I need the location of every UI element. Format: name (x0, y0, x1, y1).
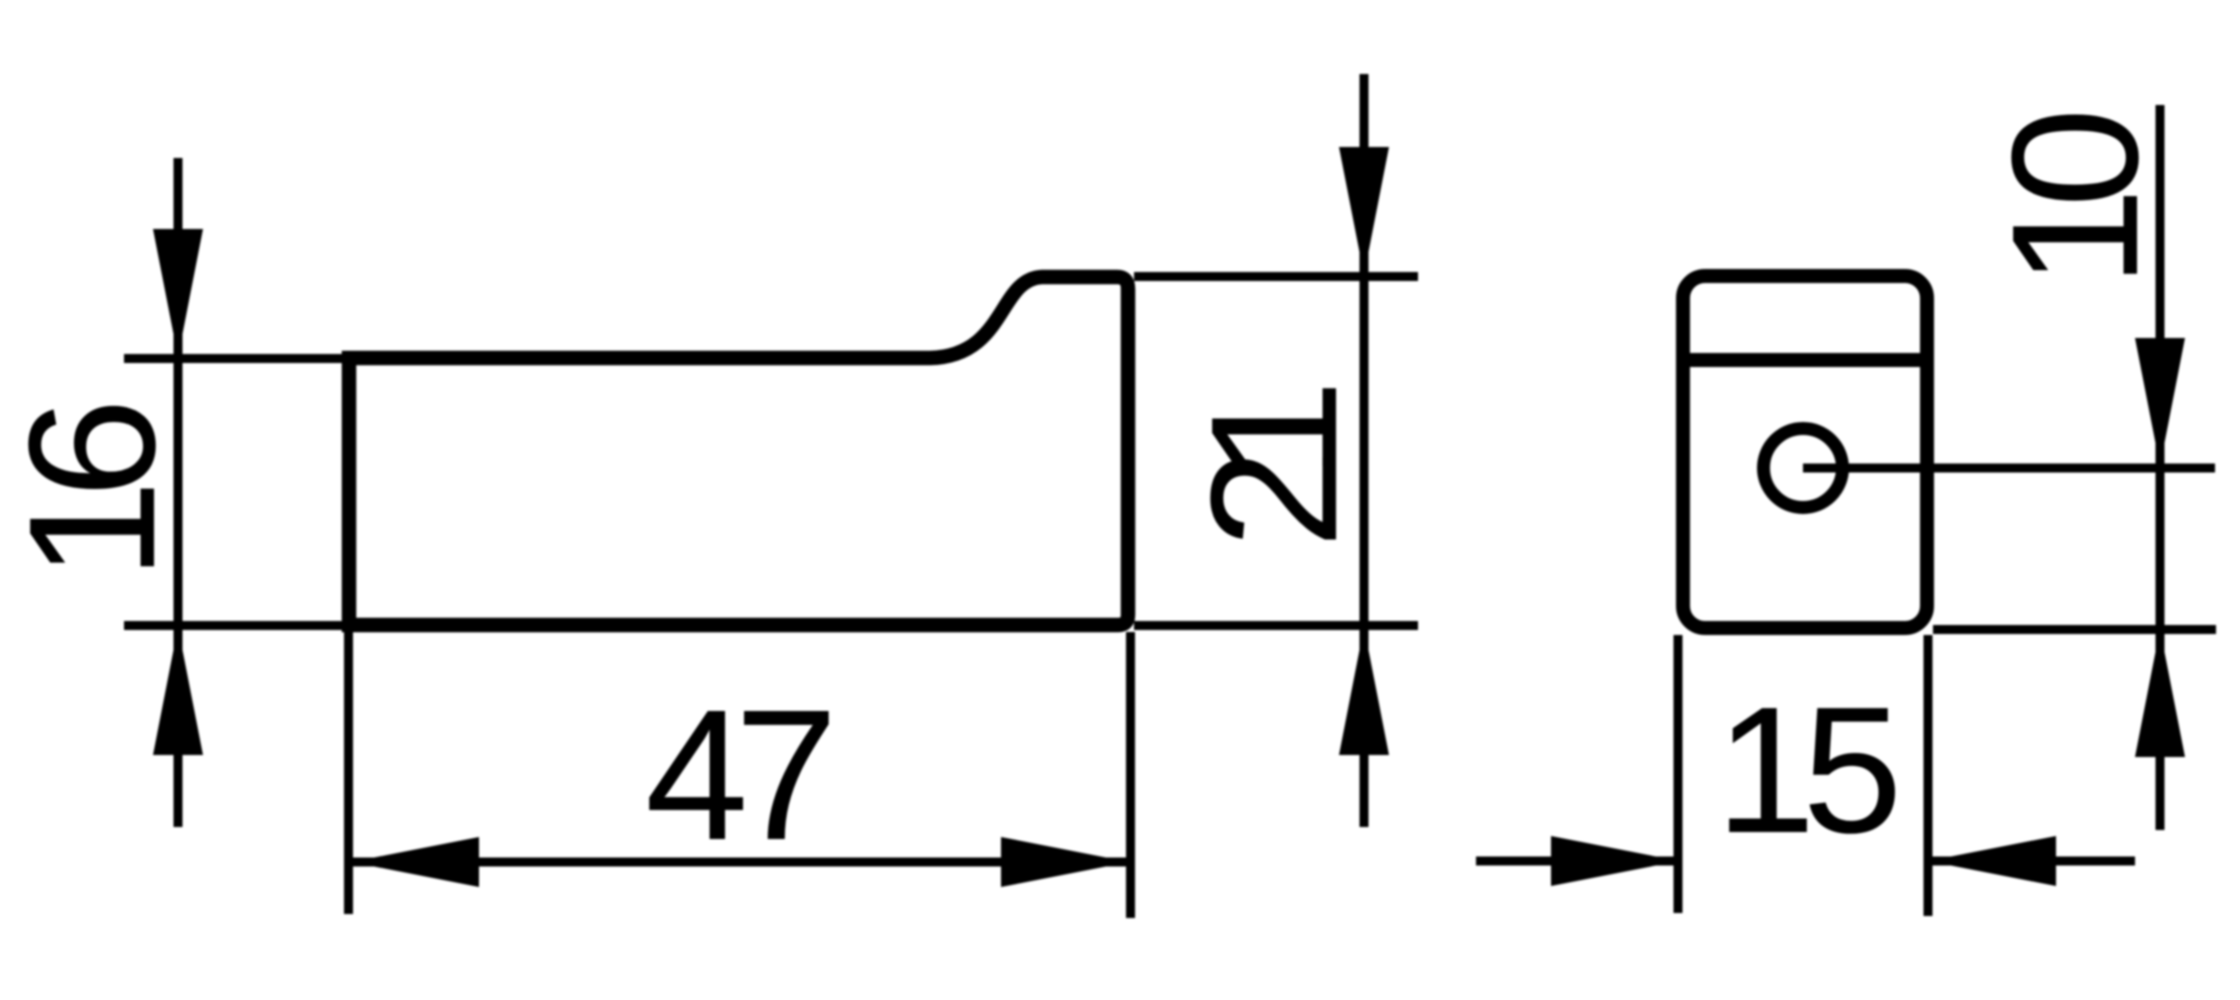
svg-text:10: 10 (1975, 108, 2176, 288)
extension line 15 right (1924, 635, 1933, 916)
hook body side view outline (349, 277, 1128, 625)
arrow 47 right (1001, 837, 1129, 887)
arrow 10 bottom (2135, 629, 2185, 757)
extension line 47 left (344, 632, 353, 914)
centerline from hole (1803, 464, 2215, 473)
dimension line 47 (351, 858, 1129, 867)
arrow 16 bottom (153, 627, 203, 755)
arrow 15 left (1551, 836, 1679, 886)
extension line 21 bottom (1134, 621, 1418, 630)
extension line 15 left (1674, 635, 1683, 913)
extension line 47 right (1126, 632, 1135, 918)
dimension line 10 (2156, 105, 2165, 830)
svg-text:47: 47 (645, 672, 838, 879)
arrow 47 left (351, 837, 479, 887)
front view step line (1687, 353, 1923, 367)
svg-text:21: 21 (1174, 380, 1375, 549)
arrow 21 top (1339, 147, 1389, 275)
dimension line 15 left shaft (1476, 857, 1679, 866)
arrow 16 top (153, 229, 203, 357)
extension line 16 top (124, 354, 352, 363)
svg-text:15: 15 (1716, 670, 1903, 871)
dimension line 21 (1360, 74, 1369, 827)
dimension line 15 right shaft (1928, 857, 2135, 866)
extension line 10 bottom (1933, 625, 2216, 634)
hook body front view rounded rect (1683, 276, 1927, 628)
arrow 21 bottom (1339, 627, 1389, 755)
extension line 16 bottom (124, 621, 352, 630)
screw hole circle (1764, 429, 1843, 508)
arrow 15 right (1928, 836, 2056, 886)
extension line 21 top (1134, 272, 1418, 281)
dimension line 16 (174, 158, 183, 827)
svg-text:16: 16 (0, 398, 193, 580)
arrow 10 top (2135, 338, 2185, 466)
